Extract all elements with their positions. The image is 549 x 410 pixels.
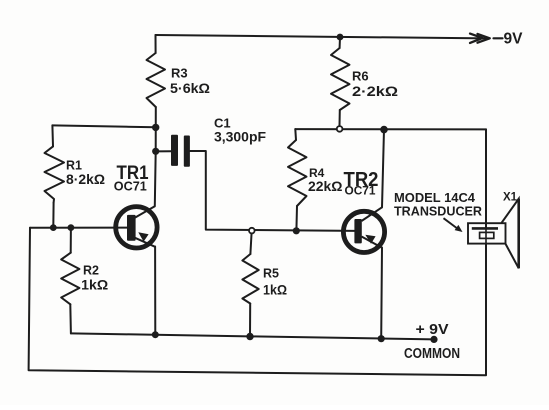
- svg-text:22kΩ: 22kΩ: [308, 179, 343, 194]
- svg-text:R5: R5: [263, 267, 279, 281]
- svg-text:MODEL 14C4: MODEL 14C4: [394, 190, 476, 205]
- svg-text:5·6kΩ: 5·6kΩ: [170, 81, 210, 96]
- svg-text:X1: X1: [503, 192, 518, 204]
- svg-text:R3: R3: [171, 66, 188, 81]
- svg-text:COMMON: COMMON: [404, 346, 460, 362]
- svg-text:R2: R2: [83, 264, 99, 278]
- svg-text:9V: 9V: [504, 30, 524, 47]
- svg-text:R6: R6: [352, 69, 369, 84]
- svg-text:8·2kΩ: 8·2kΩ: [66, 172, 105, 187]
- svg-text:R4: R4: [309, 166, 325, 180]
- svg-text:R1: R1: [66, 158, 82, 172]
- svg-text:+ 9V: + 9V: [416, 321, 449, 338]
- svg-text:OC71: OC71: [114, 179, 147, 193]
- svg-text:OC71: OC71: [345, 186, 377, 198]
- svg-text:1kΩ: 1kΩ: [81, 277, 108, 292]
- svg-text:TRANSDUCER: TRANSDUCER: [394, 204, 483, 219]
- svg-text:2·2kΩ: 2·2kΩ: [352, 84, 398, 99]
- svg-text:3,300pF: 3,300pF: [214, 129, 266, 144]
- svg-text:1kΩ: 1kΩ: [263, 283, 287, 298]
